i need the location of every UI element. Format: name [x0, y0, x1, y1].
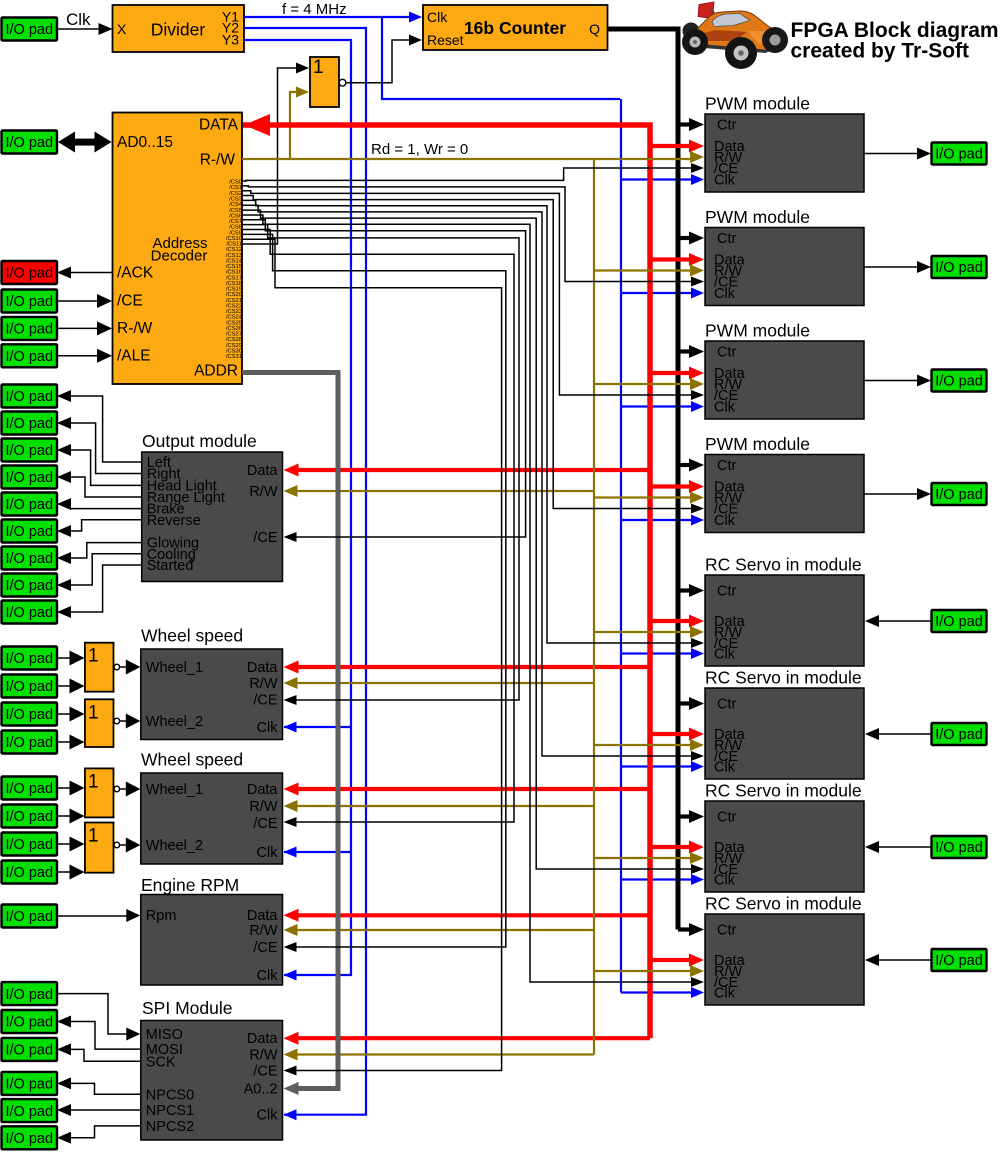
- svg-text:MISO: MISO: [146, 1027, 183, 1043]
- svg-text:16b Counter: 16b Counter: [464, 18, 566, 38]
- svg-text:/CE: /CE: [253, 1064, 278, 1080]
- svg-text:Engine RPM: Engine RPM: [141, 875, 239, 895]
- svg-text:Clk: Clk: [257, 720, 279, 736]
- svg-text:1: 1: [313, 57, 324, 78]
- svg-text:Rd = 1, Wr = 0: Rd = 1, Wr = 0: [371, 141, 468, 158]
- svg-text:Clk: Clk: [257, 968, 279, 984]
- svg-text:/CE: /CE: [253, 693, 278, 709]
- svg-text:I/O pad: I/O pad: [5, 1043, 53, 1059]
- svg-text:Divider: Divider: [151, 20, 206, 40]
- svg-text:Data: Data: [247, 463, 279, 479]
- svg-text:Data: Data: [247, 660, 279, 676]
- svg-text:A0..2: A0..2: [244, 1082, 278, 1098]
- svg-text:I/O pad: I/O pad: [5, 1104, 53, 1120]
- svg-text:Clk: Clk: [714, 647, 736, 663]
- svg-text:I/O pad: I/O pad: [5, 1131, 53, 1147]
- svg-text:Reset: Reset: [427, 32, 464, 48]
- svg-text:Clk: Clk: [714, 173, 736, 189]
- svg-text:Reverse: Reverse: [147, 513, 201, 529]
- svg-text:Q: Q: [589, 21, 600, 37]
- svg-text:I/O pad: I/O pad: [5, 651, 53, 667]
- svg-text:I/O pad: I/O pad: [935, 374, 983, 390]
- svg-text:Ctr: Ctr: [717, 458, 737, 474]
- svg-text:R-/W: R-/W: [200, 152, 236, 169]
- svg-text:Ctr: Ctr: [717, 810, 737, 826]
- svg-text:I/O pad: I/O pad: [5, 679, 53, 695]
- svg-text:Y3: Y3: [222, 32, 239, 48]
- svg-text:PWM module: PWM module: [705, 94, 810, 114]
- svg-text:1: 1: [88, 771, 99, 792]
- svg-text:Clk: Clk: [257, 845, 279, 861]
- svg-text:/CE: /CE: [117, 293, 143, 310]
- svg-text:RC Servo in module: RC Servo in module: [705, 781, 862, 801]
- svg-text:R/W: R/W: [249, 799, 278, 815]
- svg-text:I/O pad: I/O pad: [5, 781, 53, 797]
- svg-text:R-/W: R-/W: [117, 320, 153, 337]
- svg-text:Ctr: Ctr: [717, 923, 737, 939]
- svg-text:NPCS0: NPCS0: [146, 1087, 194, 1103]
- svg-text:Ctr: Ctr: [717, 118, 737, 134]
- svg-text:AD0..15: AD0..15: [117, 134, 173, 151]
- svg-text:Data: Data: [247, 782, 279, 798]
- svg-text:1: 1: [88, 826, 99, 847]
- svg-text:/CE: /CE: [253, 940, 278, 956]
- svg-text:DATA: DATA: [199, 117, 239, 134]
- svg-text:I/O pad: I/O pad: [5, 837, 53, 853]
- svg-text:Clk: Clk: [714, 760, 736, 776]
- svg-text:Wheel speed: Wheel speed: [141, 626, 243, 646]
- svg-text:Wheel_1: Wheel_1: [146, 782, 203, 798]
- svg-text:I/O pad: I/O pad: [5, 707, 53, 723]
- svg-text:I/O pad: I/O pad: [5, 135, 53, 151]
- svg-text:X: X: [117, 21, 127, 37]
- svg-text:1: 1: [88, 702, 99, 723]
- svg-text:I/O pad: I/O pad: [5, 551, 53, 567]
- svg-text:I/O pad: I/O pad: [5, 470, 53, 486]
- svg-text:I/O pad: I/O pad: [5, 322, 53, 338]
- svg-text:Clk: Clk: [427, 9, 448, 25]
- svg-text:I/O pad: I/O pad: [5, 266, 53, 282]
- svg-text:I/O pad: I/O pad: [935, 614, 983, 630]
- svg-text:/CS31: /CS31: [226, 354, 242, 360]
- svg-text:Data: Data: [247, 908, 279, 924]
- svg-text:Rpm: Rpm: [146, 908, 177, 924]
- svg-text:PWM module: PWM module: [705, 321, 810, 341]
- svg-text:Ctr: Ctr: [717, 231, 737, 247]
- svg-text:R/W: R/W: [249, 676, 278, 692]
- svg-text:Clk: Clk: [714, 513, 736, 529]
- svg-text:Clk: Clk: [66, 10, 91, 29]
- svg-text:Ctr: Ctr: [717, 584, 737, 600]
- svg-text:PWM module: PWM module: [705, 207, 810, 227]
- svg-text:I/O pad: I/O pad: [5, 735, 53, 751]
- svg-text:I/O pad: I/O pad: [935, 953, 983, 969]
- svg-text:RC Servo in module: RC Servo in module: [705, 668, 862, 688]
- svg-text:Output module: Output module: [142, 431, 257, 451]
- svg-text:/CE: /CE: [253, 816, 278, 832]
- svg-text:I/O pad: I/O pad: [5, 443, 53, 459]
- svg-text:RC Servo in module: RC Servo in module: [705, 555, 862, 575]
- svg-text:Data: Data: [247, 1031, 279, 1047]
- svg-text:Started: Started: [147, 558, 194, 574]
- svg-text:Clk: Clk: [714, 400, 736, 416]
- svg-text:RC Servo in module: RC Servo in module: [705, 894, 862, 914]
- svg-text:SCK: SCK: [146, 1054, 176, 1070]
- svg-text:I/O pad: I/O pad: [5, 294, 53, 310]
- svg-text:ADDR: ADDR: [194, 363, 238, 380]
- svg-text:I/O pad: I/O pad: [5, 497, 53, 513]
- svg-text:/ALE: /ALE: [117, 348, 151, 365]
- svg-text:I/O pad: I/O pad: [935, 840, 983, 856]
- svg-text:created by Tr-Soft: created by Tr-Soft: [791, 39, 970, 62]
- svg-text:I/O pad: I/O pad: [5, 987, 53, 1003]
- svg-text:Ctr: Ctr: [717, 697, 737, 713]
- svg-text:I/O pad: I/O pad: [5, 524, 53, 540]
- svg-text:I/O pad: I/O pad: [935, 147, 983, 163]
- svg-text:Decoder: Decoder: [151, 248, 208, 265]
- svg-text:PWM module: PWM module: [705, 434, 810, 454]
- svg-text:SPI Module: SPI Module: [142, 998, 232, 1018]
- svg-text:I/O pad: I/O pad: [5, 416, 53, 432]
- svg-text:NPCS1: NPCS1: [146, 1103, 194, 1119]
- svg-text:I/O pad: I/O pad: [5, 22, 53, 38]
- svg-text:R/W: R/W: [249, 1048, 278, 1064]
- svg-text:Wheel_2: Wheel_2: [146, 838, 203, 854]
- svg-text:R/W: R/W: [249, 484, 278, 500]
- svg-text:R/W: R/W: [249, 923, 278, 939]
- svg-text:Wheel speed: Wheel speed: [141, 750, 243, 770]
- svg-text:Ctr: Ctr: [717, 345, 737, 361]
- svg-text:1: 1: [88, 646, 99, 667]
- svg-text:Clk: Clk: [714, 986, 736, 1002]
- svg-text:NPCS2: NPCS2: [146, 1119, 194, 1135]
- svg-text:I/O pad: I/O pad: [935, 487, 983, 503]
- svg-text:/ACK: /ACK: [117, 265, 154, 282]
- svg-text:I/O pad: I/O pad: [5, 809, 53, 825]
- svg-text:I/O pad: I/O pad: [5, 865, 53, 881]
- svg-text:Clk: Clk: [714, 286, 736, 302]
- svg-text:f = 4 MHz: f = 4 MHz: [282, 1, 347, 18]
- svg-text:I/O pad: I/O pad: [5, 349, 53, 365]
- svg-text:I/O pad: I/O pad: [5, 1077, 53, 1093]
- svg-text:I/O pad: I/O pad: [5, 909, 53, 925]
- svg-text:I/O pad: I/O pad: [5, 389, 53, 405]
- svg-text:I/O pad: I/O pad: [5, 605, 53, 621]
- svg-text:/CE: /CE: [253, 530, 278, 546]
- svg-text:Clk: Clk: [714, 873, 736, 889]
- svg-text:I/O pad: I/O pad: [935, 260, 983, 276]
- svg-text:I/O pad: I/O pad: [5, 578, 53, 594]
- svg-text:Wheel_2: Wheel_2: [146, 714, 203, 730]
- svg-text:Clk: Clk: [257, 1108, 279, 1124]
- svg-text:I/O pad: I/O pad: [5, 1015, 53, 1031]
- svg-text:I/O pad: I/O pad: [935, 727, 983, 743]
- svg-text:Wheel_1: Wheel_1: [146, 660, 203, 676]
